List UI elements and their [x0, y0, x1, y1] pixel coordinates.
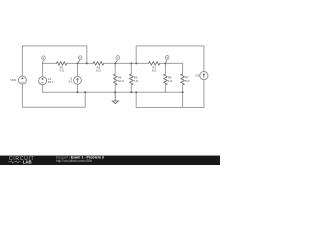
svg-text:LAB: LAB [23, 160, 32, 165]
svg-text:8 Ω: 8 Ω [96, 69, 100, 73]
svg-text:4 Ω: 4 Ω [134, 79, 138, 83]
svg-text:VM1: VM1 [10, 78, 16, 82]
svg-text:3 A: 3 A [68, 79, 72, 83]
svg-text:4 Ω: 4 Ω [59, 69, 63, 73]
svg-text:IS2: IS2 [195, 74, 200, 78]
svg-text:50 V: 50 V [48, 80, 54, 84]
svg-text:10 Ω: 10 Ω [118, 79, 124, 83]
svg-text:4 Ω: 4 Ω [168, 79, 172, 83]
svg-text:http://circuitlab.com/c/59h: http://circuitlab.com/c/59h [56, 159, 92, 163]
svg-text:8 Ω: 8 Ω [185, 79, 189, 83]
svg-text:8 Ω: 8 Ω [152, 69, 156, 73]
